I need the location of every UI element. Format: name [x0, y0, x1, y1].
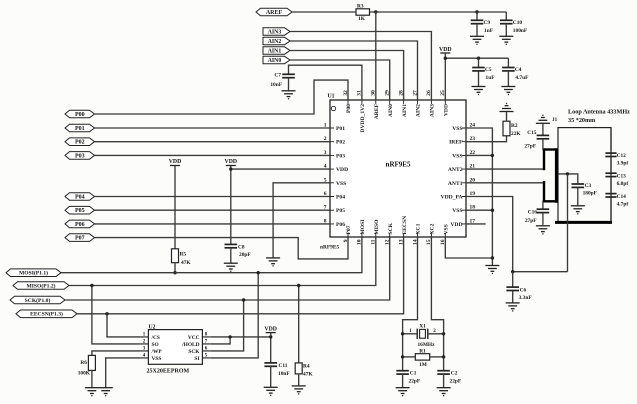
wire /CS to EECSN line — [107, 314, 141, 337]
svg-text:C7: C7 — [274, 73, 281, 79]
svg-text:180pF: 180pF — [583, 191, 598, 197]
svg-text:AREF: AREF — [374, 103, 380, 119]
svg-text:P04: P04 — [75, 194, 85, 200]
svg-text:C9: C9 — [484, 20, 491, 26]
pin1 indicator circle — [331, 106, 335, 110]
svg-text:R2: R2 — [511, 123, 518, 129]
wire P04 to U1 — [95, 196, 331, 198]
svg-text:VSS: VSS — [452, 153, 462, 159]
svg-text:10nF: 10nF — [278, 371, 290, 377]
svg-text:C10: C10 — [513, 20, 523, 26]
svg-text:VSS: VSS — [152, 356, 162, 362]
capacitor C1 — [396, 371, 409, 374]
ground R4 — [292, 386, 306, 394]
wire antenna right edge segments — [610, 128, 612, 223]
svg-text:DVDD_1V2: DVDD_1V2 — [360, 104, 366, 133]
svg-text:P00: P00 — [75, 112, 85, 118]
svg-text:1K: 1K — [358, 16, 366, 22]
wire SO to MISO line — [92, 286, 141, 344]
svg-text:P07: P07 — [75, 236, 85, 242]
svg-text:VSS: VSS — [452, 126, 462, 132]
crystal X1 — [417, 329, 428, 339]
wire pin21 ANT2 to antenna — [466, 168, 545, 170]
capacitor C7 — [282, 74, 295, 77]
wire pin31 DVDD_1V2 to C7 — [289, 65, 362, 100]
svg-text:/WP: /WP — [151, 349, 163, 355]
svg-text:ANT1: ANT1 — [448, 181, 463, 187]
svg-text:nRF9E5: nRF9E5 — [386, 161, 411, 169]
wire R5 to MOSI line — [174, 263, 176, 273]
svg-text:C11: C11 — [279, 363, 288, 369]
wire crystal left lead — [403, 333, 418, 335]
svg-text:C1: C1 — [410, 370, 417, 376]
svg-text:22pF: 22pF — [450, 378, 462, 384]
svg-text:C13: C13 — [617, 173, 627, 179]
wire VDD to C11 — [270, 333, 272, 363]
wire C7 to ground — [288, 78, 290, 91]
wire U2 SCK to SCK line — [210, 300, 243, 351]
svg-text:/CS: /CS — [151, 335, 160, 341]
capacitor C2 — [437, 371, 450, 374]
svg-text:P00: P00 — [346, 104, 352, 113]
wire R6 to ground — [91, 370, 93, 387]
wire C15 to antenna — [542, 139, 544, 150]
wire pin5 VSS to ground — [273, 183, 330, 258]
wire C1 to ground — [402, 374, 404, 388]
wire C8 to ground — [230, 248, 232, 263]
svg-text:P05: P05 — [336, 208, 345, 214]
svg-text:20pF: 20pF — [239, 252, 251, 258]
wire VCC to VDD — [210, 336, 270, 338]
wire /WP to R6 — [92, 351, 141, 356]
svg-text:R6: R6 — [80, 360, 87, 366]
capacitor C8 — [225, 244, 238, 247]
svg-text:1uF: 1uF — [486, 75, 496, 81]
svg-text:IREF: IREF — [449, 140, 463, 146]
svg-text:X1: X1 — [419, 323, 426, 329]
wire AREF to R3 — [292, 11, 356, 13]
svg-text:P05: P05 — [75, 208, 85, 214]
capacitor C3 — [572, 184, 585, 187]
svg-text:47K: 47K — [303, 372, 313, 378]
port AREF — [256, 8, 292, 16]
wire VDD to R5 — [174, 166, 176, 249]
svg-text:27pF: 27pF — [525, 218, 537, 224]
port AIN2 — [263, 37, 290, 44]
svg-text:nRF9E5: nRF9E5 — [320, 245, 339, 251]
svg-text:AIN1: AIN1 — [268, 48, 282, 54]
ground C8 — [224, 263, 238, 271]
resistor R4 — [295, 363, 302, 374]
wire R4 to ground — [298, 374, 300, 386]
svg-text:R4: R4 — [303, 364, 310, 370]
wire SCK(P1.0) line to U1 — [65, 237, 390, 300]
svg-text:VSS: VSS — [452, 208, 462, 214]
svg-text:MISO: MISO — [374, 219, 380, 235]
svg-text:AIN3: AIN3 — [430, 104, 436, 117]
svg-text:25X20EEPROM: 25X20EEPROM — [147, 369, 190, 375]
antenna J1 loop outline — [558, 128, 611, 223]
wire P03 to U1 — [95, 154, 331, 156]
svg-text:35 *20mm: 35 *20mm — [568, 117, 596, 124]
wire antenna tap down — [567, 174, 569, 272]
port AIN0 — [263, 56, 290, 63]
wire to C5 — [478, 58, 480, 67]
wire antenna to C16 — [542, 201, 544, 209]
svg-text:C14: C14 — [617, 194, 627, 200]
wire VDD to C5 C4 — [445, 57, 508, 59]
svg-text:VDD: VDD — [336, 167, 348, 173]
ground C3 — [571, 206, 585, 214]
op-amp U1 nRF9E5 MCU body — [330, 100, 466, 237]
wire pin20 ANT1 to antenna — [466, 182, 545, 184]
resistor R3 — [356, 9, 370, 15]
wire VDD_PA to antenna tap — [513, 271, 568, 273]
svg-text:SCK(P1.0): SCK(P1.0) — [25, 297, 51, 304]
svg-text:ANT2: ANT2 — [448, 167, 463, 173]
wire AIN1 to U1 — [290, 51, 404, 101]
capacitor C11 — [264, 363, 277, 366]
svg-text:VSS: VSS — [444, 224, 450, 234]
svg-text:P03: P03 — [336, 153, 345, 159]
port SCK(P1.0) — [10, 296, 65, 304]
svg-text:3.3nF: 3.3nF — [519, 295, 533, 301]
wire C6 to ground — [512, 291, 514, 303]
wire VDD to pin25 — [444, 53, 446, 100]
svg-text:AREF: AREF — [266, 10, 283, 16]
svg-text:R3: R3 — [357, 4, 364, 10]
wire to R1 left — [403, 356, 416, 358]
wire to C4 — [507, 58, 509, 67]
svg-text:4.7pf: 4.7pf — [617, 201, 629, 207]
resistor R6 — [88, 355, 95, 370]
svg-text:C8: C8 — [238, 245, 245, 251]
svg-text:J1: J1 — [552, 117, 558, 123]
svg-text:XC1: XC1 — [416, 223, 422, 234]
wire C10 to ground — [505, 24, 507, 37]
svg-text:VDD: VDD — [225, 159, 238, 165]
svg-text:3.9pf: 3.9pf — [617, 161, 629, 167]
svg-text:AIN1: AIN1 — [402, 104, 408, 117]
wire MOSI(P1.1) line to U1 — [61, 237, 362, 273]
wire AIN2 to U1 — [290, 41, 418, 100]
ground C4 — [501, 87, 515, 95]
wire EECSN(P1.3) line to U1 — [77, 237, 404, 314]
svg-text:10nF: 10nF — [270, 82, 282, 88]
ground C15 inverted — [536, 115, 550, 123]
port P07 — [65, 234, 95, 242]
svg-text:P06: P06 — [336, 222, 345, 228]
port P02 — [65, 138, 95, 146]
wire pin23 IREF to R2 — [466, 136, 507, 142]
wire C4 to ground — [507, 71, 509, 87]
resistor R5 — [172, 249, 179, 263]
wire VDD to pin4 and C8 — [230, 166, 232, 245]
wire pin19 VDD_PA down — [466, 197, 513, 272]
ground C2 — [437, 388, 451, 396]
wire C3 to ground — [577, 187, 579, 205]
svg-text:4.7uF: 4.7uF — [515, 75, 529, 81]
ground C11 — [264, 387, 278, 395]
resistor R1 — [415, 354, 429, 360]
capacitor C9 — [471, 20, 484, 23]
wire P05 to U1 — [95, 209, 331, 211]
svg-text:C2: C2 — [451, 370, 458, 376]
svg-text:100nF: 100nF — [513, 28, 528, 34]
wire P02 to U1 — [95, 141, 331, 143]
svg-text:VDD: VDD — [264, 327, 277, 333]
port P06 — [65, 220, 95, 228]
svg-text:27pF: 27pF — [524, 143, 536, 149]
svg-text:U2: U2 — [149, 324, 156, 330]
svg-text:R1: R1 — [419, 348, 426, 354]
svg-text:/HOLD: /HOLD — [181, 342, 199, 348]
capacitor C6 — [506, 287, 519, 290]
wire /HOLD to VCC — [210, 337, 230, 344]
pin ticks — [330, 100, 466, 237]
wire pin22 VSS to bus — [466, 154, 492, 156]
svg-text:C4: C4 — [515, 67, 522, 73]
svg-text:C6: C6 — [520, 287, 527, 293]
resistor R2 — [503, 121, 510, 136]
port AIN3 — [263, 28, 290, 35]
capacitor C13 — [605, 173, 616, 176]
capacitor C5 — [472, 68, 485, 71]
svg-text:SCK: SCK — [388, 222, 394, 234]
wire AIN3 to U1 — [290, 32, 431, 101]
ground C9 — [470, 36, 484, 44]
svg-text:R5: R5 — [180, 252, 187, 258]
wire XC1 to crystal — [403, 237, 418, 371]
wire C11 to ground — [270, 366, 272, 387]
port AIN1 — [263, 47, 290, 54]
svg-text:AIN2: AIN2 — [268, 39, 282, 45]
wire to C10 — [505, 12, 507, 20]
svg-text:VDD: VDD — [444, 104, 450, 116]
ground C6 — [506, 303, 520, 311]
wire C16 to ground — [542, 213, 544, 225]
svg-text:P02: P02 — [336, 140, 345, 146]
wire P07 to pin9 — [95, 237, 349, 259]
svg-text:U1: U1 — [328, 94, 335, 100]
ground R2 inverted — [500, 104, 514, 112]
wire MISO(P1.2) line to U1 — [69, 237, 376, 286]
svg-text:P06: P06 — [75, 222, 85, 228]
capacitor C12 — [605, 153, 616, 156]
wire C15 top — [542, 123, 544, 135]
svg-text:16MHz: 16MHz — [417, 342, 435, 348]
svg-text:47K: 47K — [181, 260, 191, 266]
svg-text:22pF: 22pF — [409, 378, 421, 384]
wire U2 VSS to ground — [106, 358, 141, 388]
svg-text:SO: SO — [152, 342, 159, 348]
svg-text:AIN0: AIN0 — [268, 58, 282, 64]
wire P00 to pin32 — [95, 80, 349, 114]
svg-text:100K: 100K — [78, 371, 91, 377]
svg-text:VDD_PA: VDD_PA — [441, 195, 463, 201]
svg-text:Loop Antenna 433MHz: Loop Antenna 433MHz — [568, 109, 630, 116]
svg-text:P03: P03 — [75, 153, 85, 159]
ground C16 — [536, 226, 550, 234]
capacitor C15 — [537, 135, 550, 138]
wire AREF to pin30 — [375, 12, 377, 100]
port MISO(P1.2) — [13, 282, 69, 290]
ground C10 — [499, 36, 513, 44]
svg-text:VSS: VSS — [336, 181, 346, 187]
wire R2 to ground — [506, 112, 508, 122]
wire P06 to U1 — [95, 223, 331, 225]
svg-text:VDD: VDD — [450, 222, 462, 228]
svg-text:MOSI(P1.1): MOSI(P1.1) — [19, 270, 48, 277]
wire crystal right lead — [428, 333, 444, 335]
port P01 — [65, 124, 95, 132]
port P05 — [65, 206, 95, 214]
wire R3 to C9 C10 — [370, 11, 507, 13]
ground VSS bus — [485, 266, 499, 274]
port P04 — [65, 193, 95, 201]
svg-text:6.8pf: 6.8pf — [617, 181, 629, 187]
port MOSI(P1.1) — [6, 269, 61, 277]
wire pin17 VDD stub — [466, 223, 486, 225]
wire P01 to U1 — [95, 127, 331, 129]
svg-text:P04: P04 — [336, 195, 345, 201]
svg-text:MISO(P1.2): MISO(P1.2) — [26, 282, 55, 289]
svg-text:SCK: SCK — [188, 349, 200, 355]
wire XC2 to crystal — [431, 237, 443, 371]
capacitor C10 — [500, 20, 513, 23]
svg-text:VCC: VCC — [188, 335, 200, 341]
svg-text:C15: C15 — [527, 130, 537, 136]
port P03 — [65, 152, 95, 160]
svg-text:P02: P02 — [75, 140, 85, 146]
svg-text:1nF: 1nF — [484, 28, 494, 34]
wire C2 to ground — [443, 374, 445, 388]
wire C5 to ground — [478, 71, 480, 87]
ground C1 — [396, 388, 410, 396]
antenna thick feed bars — [555, 148, 612, 222]
node AREF junction — [374, 10, 377, 13]
svg-text:C12: C12 — [617, 153, 627, 159]
wire pin18 VSS to bus — [466, 209, 492, 211]
svg-text:P07: P07 — [346, 225, 352, 234]
capacitor C14 — [605, 194, 616, 197]
ground C5 — [472, 87, 486, 95]
ground C7 — [282, 91, 296, 99]
wire pin16 VSS to bus — [445, 237, 492, 258]
svg-text:XC2: XC2 — [430, 223, 436, 234]
wire antenna inner tap to C3 — [558, 174, 578, 184]
wire AIN0 to U1 — [290, 60, 390, 100]
ground U2 VSS — [99, 388, 113, 396]
wire SI to MOSI line — [210, 273, 258, 358]
wire MISO to R4 — [298, 286, 300, 363]
wire C9 to ground — [476, 24, 478, 37]
wire R1 right — [430, 356, 444, 358]
svg-text:SI: SI — [194, 356, 199, 362]
eeprom U2 body — [148, 330, 202, 365]
svg-text:C3: C3 — [585, 183, 592, 189]
svg-text:VDD: VDD — [169, 159, 182, 165]
wire to C9 — [476, 12, 478, 20]
svg-text:MOSI: MOSI — [360, 220, 366, 235]
svg-text:EECSN(P1.3): EECSN(P1.3) — [30, 311, 63, 318]
svg-text:22K: 22K — [511, 131, 521, 137]
svg-text:C5: C5 — [485, 67, 492, 73]
ground pin5 VSS — [266, 258, 280, 266]
svg-text:1M: 1M — [419, 362, 427, 368]
svg-text:P01: P01 — [336, 126, 345, 132]
port P00 — [65, 110, 95, 118]
wire to U1 pin4 VDD — [231, 168, 330, 170]
wire to C6 — [512, 272, 514, 287]
svg-text:AIN0: AIN0 — [388, 104, 394, 117]
svg-text:C16: C16 — [528, 210, 538, 216]
svg-text:AIN2: AIN2 — [416, 104, 422, 117]
svg-text:AIN3: AIN3 — [268, 29, 282, 35]
capacitor C4 — [502, 68, 515, 71]
svg-text:VDD: VDD — [439, 47, 452, 53]
capacitor C16 — [537, 209, 550, 212]
svg-text:EECSN: EECSN — [402, 216, 408, 235]
ground R6 — [85, 388, 99, 396]
svg-text:P01: P01 — [75, 126, 85, 132]
port EECSN(P1.3) — [16, 310, 77, 318]
wire VSS bus pin24 — [466, 128, 492, 266]
